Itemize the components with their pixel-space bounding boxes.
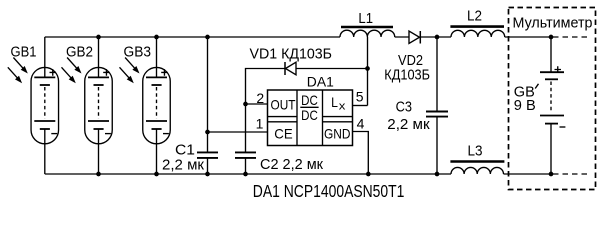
light arrows GB3 bbox=[120, 58, 140, 84]
svg-text:DC: DC bbox=[301, 92, 318, 108]
svg-text:2,2 мк: 2,2 мк bbox=[162, 157, 204, 174]
capacitor C3 bbox=[426, 37, 448, 174]
diode VD2 bbox=[409, 31, 420, 44]
wire top rail bbox=[45, 36, 551, 38]
pin 4 wire bbox=[353, 116, 369, 175]
svg-text:x: x bbox=[339, 100, 346, 112]
diode VD1 bbox=[285, 62, 296, 75]
node C1 top junction bbox=[205, 35, 210, 40]
svg-text:L1: L1 bbox=[358, 10, 373, 27]
battery GB 9V bbox=[540, 37, 565, 174]
node VD2 cathode / L2 / C3 junction bbox=[435, 35, 440, 40]
node C2 bottom junction bbox=[243, 172, 248, 177]
node GB2 top junction bbox=[96, 35, 101, 40]
solar cell GB1 bbox=[31, 37, 59, 174]
svg-text:VD1 КД103Б: VD1 КД103Б bbox=[250, 46, 333, 63]
svg-text:4: 4 bbox=[357, 116, 365, 132]
svg-text:1: 1 bbox=[256, 116, 264, 132]
wire bottom rail bbox=[45, 173, 551, 175]
svg-text:L2: L2 bbox=[467, 8, 482, 25]
multimeter dashed box bbox=[509, 8, 596, 190]
IC DA1 NCP1400ASN50T1 chip body bbox=[268, 90, 353, 146]
svg-text:L3: L3 bbox=[468, 143, 483, 160]
node GND pin bottom junction bbox=[366, 172, 371, 177]
svg-text:C2 2,2 мк: C2 2,2 мк bbox=[260, 156, 323, 173]
pin 2 wire bbox=[246, 90, 268, 106]
solar cell GB2 bbox=[85, 37, 113, 174]
solar cell GB3 bbox=[143, 37, 171, 174]
svg-text:C3: C3 bbox=[396, 99, 412, 116]
svg-text:2: 2 bbox=[256, 90, 264, 106]
inductor L2 bbox=[450, 27, 504, 37]
node Lx / VD1 anode junction bbox=[365, 66, 370, 71]
pin 5 wire bbox=[353, 89, 368, 106]
svg-text:GB2: GB2 bbox=[66, 44, 93, 61]
node battery top tap junction bbox=[549, 35, 554, 40]
node C3 bottom junction bbox=[435, 172, 440, 177]
inductor L3 bbox=[450, 162, 504, 175]
svg-text:5: 5 bbox=[356, 89, 364, 105]
node C1 bottom junction bbox=[205, 172, 210, 177]
svg-text:L: L bbox=[331, 94, 338, 110]
svg-text:CE: CE bbox=[274, 126, 292, 142]
wire top rail dashed continuation inside multimeter bbox=[553, 36, 588, 38]
node GB3 top junction bbox=[154, 35, 159, 40]
svg-text:КД103Б: КД103Б bbox=[384, 66, 430, 83]
svg-text:DC: DC bbox=[301, 107, 318, 123]
label GB battery bbox=[514, 84, 539, 114]
svg-text:OUT: OUT bbox=[271, 97, 296, 113]
svg-text:DA1 NCP1400ASN50T1: DA1 NCP1400ASN50T1 bbox=[253, 181, 405, 200]
node OUT / C2 junction bbox=[243, 102, 248, 107]
capacitor C2 bbox=[235, 104, 256, 174]
node GB2 bottom junction bbox=[96, 172, 101, 177]
light arrows GB1 bbox=[8, 58, 28, 84]
svg-text:Мультиметр: Мультиметр bbox=[513, 15, 593, 32]
node CE / C1 junction bbox=[205, 130, 210, 135]
capacitor C1 bbox=[197, 37, 218, 174]
svg-text:9 В: 9 В bbox=[514, 97, 536, 114]
svg-text:2,2 мк: 2,2 мк bbox=[387, 116, 430, 133]
wire bottom rail dashed continuation inside multimeter bbox=[553, 173, 588, 175]
inductor L1 bbox=[340, 27, 395, 37]
pin 1 wire bbox=[208, 116, 268, 133]
svg-text:GB1: GB1 bbox=[11, 44, 37, 61]
svg-text:GB3: GB3 bbox=[124, 44, 152, 61]
node GB3 bottom junction bbox=[154, 172, 159, 177]
light arrows GB2 bbox=[62, 58, 82, 84]
wire VD1 branch (Lx node to OUT node) bbox=[246, 69, 368, 105]
svg-text:GND: GND bbox=[324, 126, 351, 142]
node battery bottom tap junction bbox=[549, 172, 554, 177]
wire Lx node vertical (L1 tap to pin 5) bbox=[367, 37, 369, 106]
svg-text:DA1: DA1 bbox=[307, 74, 334, 89]
